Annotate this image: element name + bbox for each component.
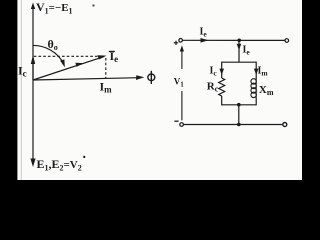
junction node (top) xyxy=(237,39,241,43)
wire join bar xyxy=(222,104,257,106)
Im label (branch) xyxy=(258,66,269,78)
V1 label xyxy=(174,76,185,88)
arrow Im branch xyxy=(254,69,259,75)
Ie label (shunt) xyxy=(243,45,251,57)
plus sign xyxy=(174,41,178,45)
terminal (top-right) xyxy=(285,39,289,43)
svg-text:V1=−E1: V1=−E1 xyxy=(36,0,73,16)
junction node (join) xyxy=(237,103,241,107)
Ic label (branch) xyxy=(210,66,218,78)
phasor Ic arrow on axis xyxy=(31,55,35,80)
wire left branch upper xyxy=(221,62,223,78)
terminal (bottom-right) xyxy=(283,123,287,127)
node E1,E2=V2 label xyxy=(37,156,86,173)
wire join drop xyxy=(238,105,240,125)
minus sign xyxy=(174,120,178,122)
phasor Ie vector xyxy=(33,55,107,80)
wire right branch upper xyxy=(255,62,257,79)
wire shunt drop xyxy=(238,40,240,62)
terminal - (bottom-left) xyxy=(180,123,184,127)
junction node (bottom) xyxy=(237,123,241,127)
theta0 label xyxy=(48,37,58,52)
terminal + (top-left) xyxy=(179,39,183,43)
arrow Ie on top wire xyxy=(201,38,209,43)
node phi label xyxy=(148,71,155,84)
node V1=-E1 label xyxy=(36,0,73,16)
V1 sense arrow upper xyxy=(180,45,184,69)
wire top xyxy=(183,39,285,41)
wire right branch lower xyxy=(255,98,257,106)
Xm value label xyxy=(259,84,274,97)
arrow Ie shunt xyxy=(237,44,242,50)
inductor Xm xyxy=(251,79,256,98)
dashed vertical Im projection xyxy=(105,58,107,78)
theta0 angle arc xyxy=(33,45,65,67)
Ie bar label xyxy=(109,49,118,64)
Ie label (top wire) xyxy=(200,27,208,39)
horizontal axis phi xyxy=(33,75,144,80)
V1 sense line lower xyxy=(181,91,183,120)
arrow Ic branch xyxy=(219,69,224,75)
Im label xyxy=(100,80,113,95)
wire split bar xyxy=(222,61,257,63)
wire bottom xyxy=(184,124,283,126)
svg-text:E1,E2=V2: E1,E2=V2 xyxy=(37,157,82,173)
wire left branch lower xyxy=(221,96,223,105)
Ic label xyxy=(18,64,27,79)
Rc value label xyxy=(207,80,219,93)
resistor Rc xyxy=(219,78,225,96)
vertical axis V1 / E xyxy=(30,3,35,168)
dashed horizontal to Ie tip xyxy=(34,55,104,57)
